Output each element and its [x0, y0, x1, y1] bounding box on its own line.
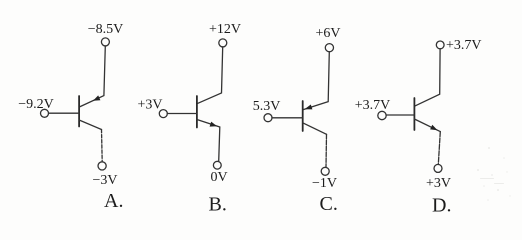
svg-text:+3.7V: +3.7V [446, 38, 482, 53]
svg-text:−9.2V: −9.2V [18, 97, 54, 112]
svg-text:−3V: −3V [92, 173, 117, 188]
svg-text:−1V: −1V [312, 176, 337, 191]
svg-text:B.: B. [209, 194, 227, 216]
svg-text:D.: D. [432, 195, 451, 217]
svg-text:+6V: +6V [315, 26, 340, 41]
svg-text:0V: 0V [210, 170, 227, 185]
svg-text:+12V: +12V [209, 22, 241, 37]
svg-text:A.: A. [104, 190, 123, 212]
svg-text:+3V: +3V [137, 98, 162, 113]
svg-text:5.3V: 5.3V [253, 99, 281, 114]
svg-text:+3.7V: +3.7V [355, 98, 391, 113]
svg-text:−8.5V: −8.5V [88, 22, 124, 37]
svg-text:+3V: +3V [426, 176, 451, 191]
svg-text:C.: C. [320, 193, 338, 215]
